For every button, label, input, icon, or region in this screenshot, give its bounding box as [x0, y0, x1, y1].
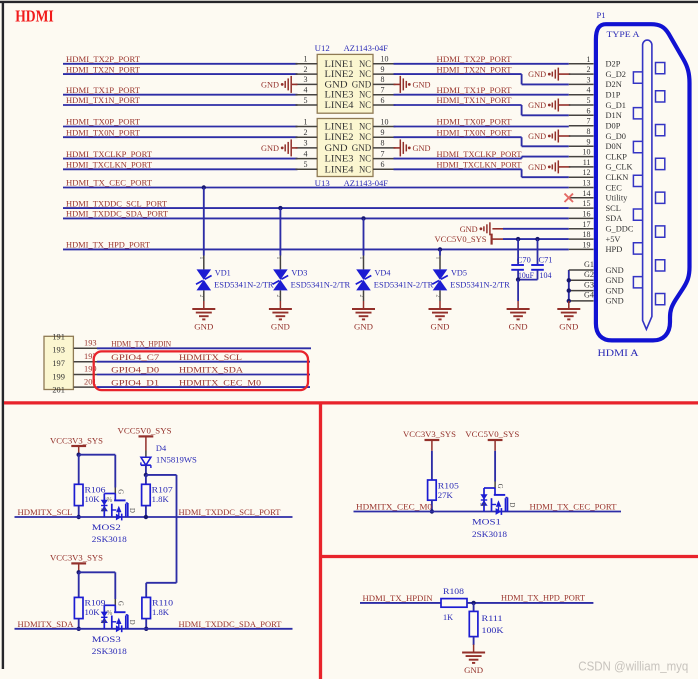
connector P1 contact notch left	[633, 277, 642, 288]
connector P1 pin 17	[569, 228, 594, 230]
connector strip pin 201	[74, 386, 97, 388]
diode VD3 pin 2	[279, 290, 281, 301]
wire VCC5V0 to gate MOS1	[494, 451, 496, 482]
svg-text:2: 2	[304, 128, 308, 137]
connector P1 pin 15	[569, 207, 594, 209]
svg-text:VD1: VD1	[215, 269, 231, 278]
svg-text:G4: G4	[584, 291, 594, 300]
svg-text:2: 2	[358, 295, 364, 298]
svg-text:Utility: Utility	[606, 194, 629, 203]
svg-text:2SK3018: 2SK3018	[472, 530, 507, 539]
connector P1 contact notch right	[656, 63, 665, 74]
svg-text:LINE4: LINE4	[325, 165, 354, 175]
diode VD5 pin 2	[439, 290, 441, 301]
svg-text:VCC3V3_SYS: VCC3V3_SYS	[403, 429, 456, 439]
svg-text:1: 1	[198, 257, 204, 260]
svg-text:GPIO4_C7: GPIO4_C7	[111, 352, 160, 362]
svg-text:SDA: SDA	[606, 214, 623, 223]
section divider horizontal	[4, 401, 698, 404]
no-connect cross pin 14	[565, 194, 574, 202]
svg-text:NC: NC	[359, 60, 371, 70]
svg-text:C71: C71	[539, 256, 553, 265]
svg-text:D1P: D1P	[606, 91, 621, 100]
svg-text:G: G	[116, 601, 123, 606]
svg-text:NC: NC	[359, 70, 371, 80]
svg-text:HDMI_TX_HPD_PORT: HDMI_TX_HPD_PORT	[501, 592, 586, 602]
svg-text:9: 9	[587, 137, 591, 146]
wire HDMITX_SDA	[15, 628, 293, 630]
svg-text:S: S	[99, 620, 106, 624]
connector P1 contact notch right	[656, 294, 665, 305]
svg-text:LINE3: LINE3	[325, 91, 354, 101]
wire VD5 vertical	[439, 249, 441, 255]
ground port left of U13 pin 3	[292, 147, 298, 149]
resistor R110	[142, 597, 151, 618]
wire D4 to junction	[145, 465, 147, 475]
transistor MOS1	[479, 484, 515, 515]
connector P1 contact notch left	[633, 175, 642, 186]
svg-text:9: 9	[381, 65, 385, 74]
IC U12 pin 4	[296, 94, 318, 96]
connector strip pin 199	[74, 374, 97, 376]
junction C71 tap	[535, 237, 539, 241]
gate pin MOS1	[494, 482, 496, 489]
svg-text:199: 199	[52, 373, 65, 382]
svg-text:G_CLK: G_CLK	[606, 163, 633, 172]
IC U12 pin 1	[296, 63, 318, 65]
diode D4 1N5819WS	[141, 457, 151, 465]
IC U12 pin 10	[373, 63, 396, 65]
wire HDMI_TXCLKN_PORT left	[63, 168, 298, 170]
connector pin G4 stub	[569, 300, 594, 302]
svg-text:GND: GND	[528, 132, 546, 141]
svg-text:MOS2: MOS2	[92, 523, 121, 532]
svg-text:ESD5341N-2/TR: ESD5341N-2/TR	[291, 280, 351, 289]
svg-text:193: 193	[84, 339, 97, 348]
wire HDMI_TXDDC_SCL_PORT	[63, 207, 569, 209]
svg-text:HDMI_TX_HPDIN: HDMI_TX_HPDIN	[363, 593, 434, 603]
resistor R105	[428, 480, 437, 500]
svg-text:19: 19	[583, 240, 591, 249]
svg-text:U12: U12	[315, 43, 330, 53]
connector P1 pin 18	[569, 238, 594, 240]
wire HDMI_TX0N_PORT right	[394, 136, 522, 138]
connector pin G1 stub	[569, 269, 594, 271]
svg-text:HDMI_TXDDC_SCL_PORT: HDMI_TXDDC_SCL_PORT	[66, 198, 168, 208]
svg-text:27K: 27K	[438, 491, 453, 500]
wire R109 to SDA	[78, 619, 80, 629]
junction C70 tap	[516, 237, 520, 241]
ground port right of U13 pin 8	[394, 147, 401, 149]
svg-text:CEC: CEC	[606, 183, 623, 192]
svg-text:LINE2: LINE2	[325, 70, 354, 80]
transistor MOS2	[99, 489, 135, 520]
svg-text:U13: U13	[315, 178, 331, 188]
svg-text:6: 6	[381, 160, 385, 169]
svg-text:10: 10	[381, 117, 389, 126]
wire HDMI_TX2P_PORT right	[394, 63, 569, 65]
svg-text:HDMI_TX_CEC_PORT: HDMI_TX_CEC_PORT	[66, 178, 153, 188]
svg-text:197: 197	[52, 359, 65, 368]
svg-text:HDMI A: HDMI A	[598, 348, 639, 358]
wire HDMI_TX2P_PORT left	[63, 63, 298, 65]
section divider horizontal right	[321, 555, 698, 558]
svg-text:3: 3	[587, 75, 591, 84]
section divider vertical	[319, 403, 322, 679]
svg-text:GND: GND	[325, 144, 348, 154]
svg-text:AZ1143-04F: AZ1143-04F	[344, 43, 389, 53]
svg-text:HDMI_TX_HPDIN: HDMI_TX_HPDIN	[111, 339, 172, 349]
diode VD4 ESD5341N-2/TR	[356, 269, 371, 280]
svg-text:GND: GND	[528, 70, 546, 79]
diode VD5 pin 1	[439, 256, 441, 270]
wire HDMITX_SCL	[15, 516, 293, 518]
connector pin G2 stub	[569, 279, 594, 281]
wire strip row 201	[97, 386, 310, 388]
ground port at connector pin 5	[559, 104, 571, 106]
connector P1 contact notch right	[656, 226, 665, 237]
connector P1 pin 3	[569, 83, 594, 85]
svg-text:HDMI_TX2N_PORT: HDMI_TX2N_PORT	[437, 64, 513, 74]
svg-text:HDMI_TXDDC_SCL_PORT: HDMI_TXDDC_SCL_PORT	[179, 507, 282, 517]
svg-text:HDMI_TX0P_PORT: HDMI_TX0P_PORT	[66, 117, 141, 127]
svg-text:100K: 100K	[482, 626, 504, 635]
svg-text:GND: GND	[606, 276, 624, 285]
svg-text:D2P: D2P	[606, 60, 621, 69]
svg-text:GND: GND	[261, 144, 279, 153]
svg-text:HDMI_TX1P_PORT: HDMI_TX1P_PORT	[437, 85, 513, 95]
svg-text:HDMI_TXCLKN_PORT: HDMI_TXCLKN_PORT	[66, 160, 153, 170]
svg-text:LINE1: LINE1	[325, 123, 354, 133]
svg-text:8: 8	[381, 75, 385, 84]
ground VD5	[439, 301, 441, 309]
svg-text:R111: R111	[482, 614, 503, 623]
svg-text:HDMI_TX1N_PORT: HDMI_TX1N_PORT	[66, 95, 141, 105]
wire G bus to ground	[568, 300, 570, 302]
svg-text:NC: NC	[359, 165, 371, 175]
connector P1 contact notch left	[633, 209, 642, 220]
ground port at connector pin 11	[559, 166, 571, 168]
svg-text:GND: GND	[509, 323, 528, 332]
svg-text:HDMI_TXCLKN_PORT: HDMI_TXCLKN_PORT	[437, 160, 523, 170]
svg-text:G1: G1	[584, 260, 594, 269]
svg-text:ESD5341N-2/TR: ESD5341N-2/TR	[450, 280, 510, 289]
svg-text:D4: D4	[156, 444, 167, 453]
svg-text:GND: GND	[325, 80, 348, 90]
diode VD1 ESD5341N-2/TR	[197, 269, 212, 280]
svg-text:VD3: VD3	[291, 269, 307, 278]
wire HDMI_TX2N_PORT right	[394, 73, 522, 75]
diode VD1 pin 2	[203, 290, 205, 301]
svg-text:8: 8	[381, 139, 385, 148]
junction R105 CEC	[430, 509, 434, 513]
svg-text:G: G	[116, 489, 123, 494]
IC U13 pin 6	[373, 168, 396, 170]
IC U12 pin 8	[373, 83, 396, 85]
svg-text:R105: R105	[438, 481, 459, 490]
svg-text:D: D	[128, 508, 135, 513]
svg-text:D: D	[128, 620, 135, 625]
IC U13 body	[317, 119, 373, 177]
svg-text:GND: GND	[606, 286, 624, 295]
svg-text:GND: GND	[413, 144, 431, 153]
svg-text:2: 2	[587, 65, 591, 74]
svg-text:G_D0: G_D0	[606, 132, 626, 141]
connector strip pin 197	[74, 361, 97, 363]
IC U13 pin 8	[373, 147, 396, 149]
connector P1 pin 6	[569, 114, 594, 116]
wire D4 to R110	[146, 474, 177, 476]
svg-text:GND: GND	[354, 323, 373, 332]
svg-text:G3: G3	[584, 280, 594, 289]
svg-text:S: S	[479, 503, 486, 507]
svg-text:GPIO4_D1: GPIO4_D1	[111, 377, 159, 387]
svg-text:10K: 10K	[85, 495, 100, 504]
svg-text:ESD5341N-2/TR: ESD5341N-2/TR	[374, 280, 434, 289]
svg-text:2: 2	[275, 295, 281, 298]
svg-text:NC: NC	[359, 91, 371, 101]
svg-text:VCC5V0_SYS: VCC5V0_SYS	[465, 429, 519, 439]
junction VD5 tap	[438, 247, 442, 251]
svg-text:1N5819WS: 1N5819WS	[156, 455, 197, 464]
connector P1 pin 2	[569, 73, 594, 75]
svg-text:CLKP: CLKP	[606, 152, 628, 161]
gate pin MOS2	[114, 488, 116, 494]
connector P1 pin 9	[569, 145, 594, 147]
wire C71 to C70 bottom	[518, 279, 537, 281]
svg-text:AZ1143-04F: AZ1143-04F	[344, 178, 389, 188]
svg-text:LINE3: LINE3	[325, 155, 354, 165]
junction VD1 tap	[202, 185, 206, 189]
connector pin G3 stub	[569, 290, 594, 292]
diode VD3 ESD5341N-2/TR	[273, 269, 288, 280]
junction R111 tap	[471, 601, 475, 605]
svg-text:G2: G2	[584, 270, 594, 279]
svg-text:R106: R106	[85, 486, 106, 495]
sheet border top	[0, 1, 698, 3]
wire VD4 vertical	[363, 218, 365, 255]
junction D4 out	[144, 473, 148, 477]
svg-text:1: 1	[358, 257, 364, 260]
wire to R111	[473, 603, 475, 612]
svg-text:VD4: VD4	[375, 269, 391, 278]
connector P1 pin 10	[569, 156, 594, 158]
svg-text:NC: NC	[359, 155, 371, 165]
svg-text:2SK3018: 2SK3018	[92, 647, 127, 656]
svg-text:HDMI_TXDDC_SDA_PORT: HDMI_TXDDC_SDA_PORT	[66, 209, 169, 219]
svg-text:GND: GND	[528, 163, 546, 172]
IC U13 pin 9	[373, 136, 396, 138]
svg-text:HDMI_TX0N_PORT: HDMI_TX0N_PORT	[66, 127, 141, 137]
svg-text:SCL: SCL	[606, 204, 621, 213]
svg-text:GND: GND	[271, 323, 290, 332]
svg-text:GND: GND	[606, 266, 624, 275]
wire HDMI_TXDDC_SDA_PORT	[63, 217, 569, 219]
svg-text:G_D2: G_D2	[606, 70, 626, 79]
svg-text:HDMI_TX_HPD_PORT: HDMI_TX_HPD_PORT	[66, 240, 151, 250]
ground VD1	[203, 301, 205, 309]
svg-text:7: 7	[381, 86, 385, 95]
svg-text:1: 1	[304, 55, 308, 64]
resistor R109	[74, 597, 83, 618]
svg-text:R109: R109	[85, 599, 106, 608]
svg-text:HDMITX_SDA: HDMITX_SDA	[18, 619, 75, 629]
svg-text:VCC3V3_SYS: VCC3V3_SYS	[50, 435, 103, 445]
svg-text:VCC5V0_SYS: VCC5V0_SYS	[118, 426, 172, 436]
svg-text:4: 4	[304, 86, 308, 95]
svg-text:HDMI_TX2N_PORT: HDMI_TX2N_PORT	[66, 64, 141, 74]
svg-text:5: 5	[587, 96, 591, 105]
wire HDMI_TX2N_PORT left	[63, 73, 298, 75]
junction R109 SDA	[77, 627, 81, 631]
svg-text:HDMITX_CEC_M0: HDMITX_CEC_M0	[179, 377, 261, 387]
svg-text:C70: C70	[517, 256, 531, 265]
svg-text:HDMI_TX2P_PORT: HDMI_TX2P_PORT	[437, 54, 513, 64]
svg-text:5: 5	[304, 160, 308, 169]
diode VD5 ESD5341N-2/TR	[433, 269, 448, 280]
svg-text:HDMI_TX_CEC_PORT: HDMI_TX_CEC_PORT	[530, 502, 618, 512]
wire HDMI_TX0P_PORT left	[63, 126, 298, 128]
junction VCC3V3 SCL	[77, 453, 81, 457]
svg-text:201: 201	[52, 385, 65, 394]
svg-text:LINE4: LINE4	[325, 101, 354, 111]
wire HDMI_TXCLKP_PORT right	[394, 158, 522, 160]
svg-text:18: 18	[583, 230, 591, 239]
svg-text:1: 1	[275, 257, 281, 260]
junction G3	[567, 288, 571, 292]
diode VD4 pin 1	[363, 256, 365, 270]
svg-text:HDMI_TX2P_PORT: HDMI_TX2P_PORT	[66, 54, 141, 64]
svg-text:7: 7	[381, 149, 385, 158]
svg-text:R108: R108	[443, 587, 464, 596]
connector P1 contact notch right	[656, 260, 665, 271]
IC U12 pin 9	[373, 73, 396, 75]
connector P1 outline	[596, 24, 690, 340]
svg-text:VCC3V3_SYS: VCC3V3_SYS	[50, 553, 103, 563]
svg-text:HDMI_TXCLKP_PORT: HDMI_TXCLKP_PORT	[66, 149, 153, 159]
connector P1 pin 4	[569, 94, 594, 96]
wire VCC3V3 to gate MOS2	[79, 454, 116, 456]
IC U13 pin 3	[296, 147, 318, 149]
svg-text:HDMI_TX1P_PORT: HDMI_TX1P_PORT	[66, 85, 141, 95]
wire R106 to SCL	[78, 506, 80, 517]
ground port left of U12 pin 3	[292, 83, 298, 85]
svg-text:HDMI: HDMI	[15, 7, 54, 26]
svg-text:D1N: D1N	[606, 111, 622, 120]
wire capacitors to ground	[517, 280, 519, 301]
connector P1 pin 19	[569, 248, 594, 250]
IC U12 body	[317, 54, 373, 113]
sheet border left	[2, 2, 4, 669]
IC U12 pin 3	[296, 83, 318, 85]
svg-text:1.8K: 1.8K	[152, 495, 169, 504]
connector P1 pin 12	[569, 176, 594, 178]
transistor MOS3	[99, 601, 135, 632]
wire HDMI_TX1P_PORT left	[63, 94, 298, 96]
svg-text:GND: GND	[559, 323, 578, 332]
junction VD3 tap	[278, 206, 282, 210]
wire strip row 199	[97, 374, 310, 376]
svg-text:GND: GND	[352, 80, 372, 90]
svg-text:3: 3	[304, 139, 308, 148]
svg-text:P1: P1	[597, 10, 606, 20]
resistor R108	[441, 599, 467, 608]
svg-text:+5V: +5V	[606, 235, 621, 244]
svg-text:R107: R107	[152, 486, 173, 495]
svg-text:VCC5V0_SYS: VCC5V0_SYS	[435, 235, 487, 244]
wire HDMI_TX1P_PORT right	[394, 94, 569, 96]
junction G4	[567, 299, 571, 303]
junction VD4 tap	[361, 216, 365, 220]
wire HDMITX_CEC_M0	[354, 511, 622, 513]
junction R110 SDA	[144, 627, 148, 631]
svg-text:HDMI_TXDDC_SDA_PORT: HDMI_TXDDC_SDA_PORT	[179, 619, 283, 629]
diode D4 pin 1	[145, 451, 147, 458]
ground R111	[473, 645, 475, 653]
svg-text:2: 2	[434, 295, 440, 298]
wire VCC3V3 to gate MOS3	[79, 571, 116, 573]
svg-text:GND: GND	[460, 225, 478, 234]
resistor R111	[469, 611, 478, 636]
svg-text:10: 10	[381, 55, 389, 64]
connector P1 blade	[643, 40, 652, 329]
IC U13 pin 7	[373, 158, 396, 160]
connector P1 pin 5	[569, 104, 594, 106]
svg-text:G_DDC: G_DDC	[606, 225, 634, 234]
wire HDMI_TXCLKN_PORT right	[394, 168, 522, 170]
svg-text:14: 14	[583, 189, 591, 198]
wire D4 to R107	[145, 475, 147, 484]
svg-text:193: 193	[52, 345, 65, 354]
svg-text:LINE2: LINE2	[325, 133, 354, 143]
svg-text:GND: GND	[413, 81, 431, 90]
junction VCC3V3 SDA	[77, 570, 81, 574]
svg-text:1K: 1K	[443, 613, 453, 622]
junction R107 SCL	[144, 515, 148, 519]
svg-text:8: 8	[587, 127, 591, 136]
svg-text:D0P: D0P	[606, 122, 621, 131]
connector P1 contact notch right	[656, 158, 665, 169]
IC U12 pin 7	[373, 94, 396, 96]
connector P1 contact notch left	[633, 243, 642, 254]
wire strip row 193	[97, 347, 311, 349]
svg-text:2: 2	[304, 65, 308, 74]
svg-text:GND: GND	[352, 144, 372, 154]
svg-text:6: 6	[381, 96, 385, 105]
IC U13 pin 1	[296, 126, 318, 128]
resistor R107	[142, 484, 151, 505]
junction R106 SCL	[77, 515, 81, 519]
svg-text:10: 10	[583, 148, 591, 157]
capacitor C70	[517, 239, 519, 264]
IC U13 pin 10	[373, 126, 396, 128]
svg-text:HDMI_TX1N_PORT: HDMI_TX1N_PORT	[437, 95, 513, 105]
svg-text:17: 17	[583, 220, 591, 229]
connector P1 contact notch left	[633, 108, 642, 119]
resistor R106	[74, 484, 83, 505]
svg-text:HDMITX_SCL: HDMITX_SCL	[18, 507, 73, 517]
wire HDMI_TX1N_PORT left	[63, 104, 298, 106]
svg-text:1: 1	[304, 117, 308, 126]
wire R105 to CEC_M0	[431, 500, 433, 511]
wire R111 to ground	[473, 637, 475, 645]
connector strip pin 193	[74, 347, 97, 349]
svg-text:VD5: VD5	[451, 269, 467, 278]
svg-text:2SK3018: 2SK3018	[92, 535, 127, 544]
svg-text:1: 1	[434, 257, 440, 260]
svg-text:5: 5	[304, 96, 308, 105]
IC U12 pin 2	[296, 73, 318, 75]
